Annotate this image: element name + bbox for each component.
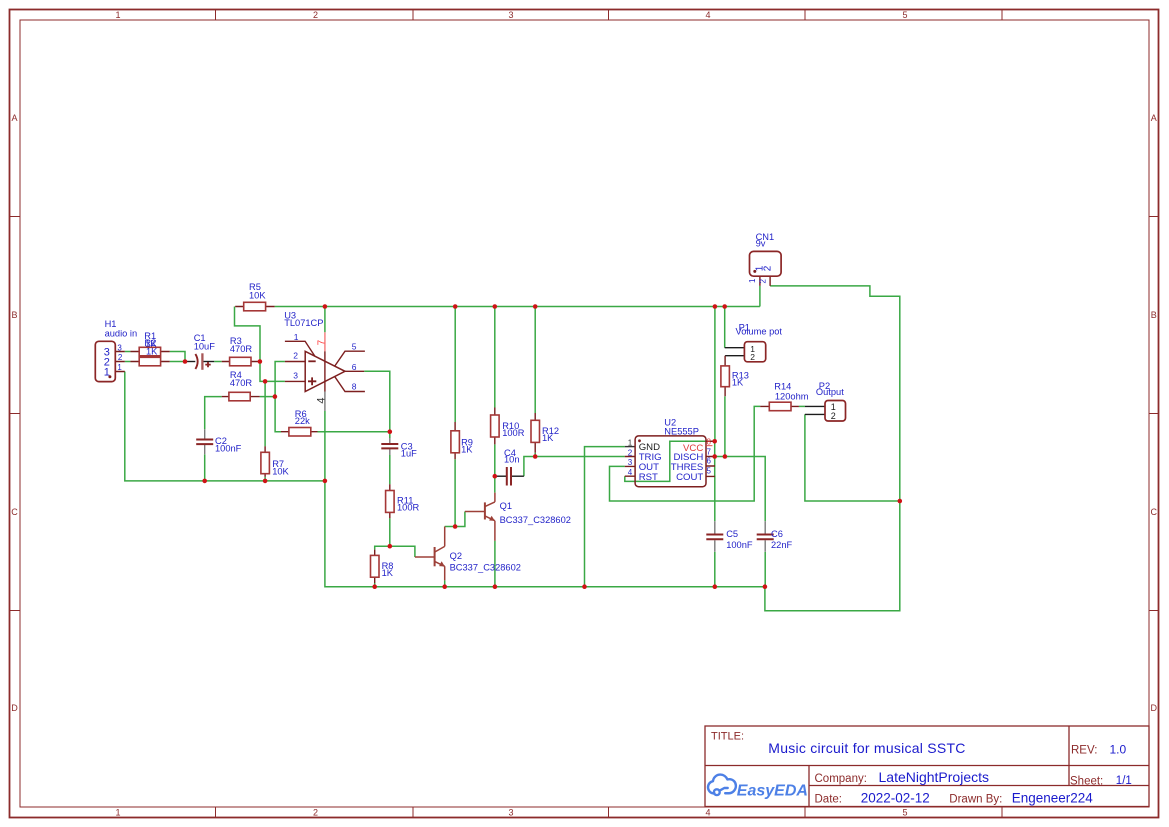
capacitor C5 plates xyxy=(706,535,723,540)
resistor R8 body xyxy=(371,555,380,577)
svg-text:BC337_C328602: BC337_C328602 xyxy=(500,515,571,525)
junction rail R10 xyxy=(493,304,498,309)
connector P2 body xyxy=(825,401,846,422)
svg-text:3: 3 xyxy=(117,343,122,352)
svg-text:2: 2 xyxy=(831,411,836,421)
wire R7 bottom to ground rail xyxy=(264,477,266,481)
resistor R11 body xyxy=(386,491,395,513)
wire R11 node right to Q2 base xyxy=(390,546,415,557)
svg-text:2: 2 xyxy=(313,10,318,20)
op-amp pin numbers xyxy=(293,332,357,391)
frame row ticks right xyxy=(1149,217,1159,611)
wire P1 pin2 black segment xyxy=(725,355,744,357)
op-amp pin 7 salmon segment xyxy=(324,332,326,351)
wire C6 bottom to bottom rail xyxy=(764,552,766,587)
capacitor C2 gray stubs xyxy=(204,429,206,454)
junction rail R9 xyxy=(453,304,458,309)
wire U2 pin3 OUT loop up to R14 xyxy=(610,406,761,501)
svg-text:10K: 10K xyxy=(249,290,266,300)
svg-text:2: 2 xyxy=(293,351,298,361)
connector H1 pin1 marker dot xyxy=(108,375,111,378)
svg-text:Music circuit for musical SSTC: Music circuit for musical SSTC xyxy=(768,740,965,756)
resistor R4 body xyxy=(229,392,250,401)
pin 1 stub U2 GND xyxy=(625,446,635,448)
resistor R1 stubs xyxy=(130,351,169,353)
svg-text:B: B xyxy=(1151,310,1157,320)
svg-text:6: 6 xyxy=(707,456,712,465)
svg-text:3: 3 xyxy=(508,10,513,20)
svg-text:100nF: 100nF xyxy=(215,443,242,453)
svg-text:1: 1 xyxy=(748,278,757,283)
capacitor C6 plates xyxy=(757,535,774,540)
op-amp pin 1 xyxy=(285,341,315,356)
svg-text:4: 4 xyxy=(628,468,633,477)
resistor R7 stubs xyxy=(264,446,266,477)
svg-text:audio in: audio in xyxy=(105,328,138,338)
svg-text:D: D xyxy=(11,703,18,713)
junction ground rail R7 xyxy=(263,479,268,484)
EasyEDA logo cloud xyxy=(708,775,736,795)
wire C2 bottom to ground rail xyxy=(204,454,206,481)
wire pin3 node to op-amp pin3 xyxy=(265,380,285,382)
svg-text:1K: 1K xyxy=(461,445,473,455)
svg-text:2022-02-12: 2022-02-12 xyxy=(861,790,930,805)
title block divider row1 xyxy=(705,765,1149,767)
wire pin8 node to pin7 node xyxy=(714,441,716,456)
wire R8 bottom to bottom rail xyxy=(374,583,376,587)
svg-text:A: A xyxy=(11,113,17,123)
svg-text:1K: 1K xyxy=(382,568,394,578)
svg-text:RST: RST xyxy=(639,472,658,483)
junction U2 pin8 xyxy=(712,439,717,444)
resistor R1 body xyxy=(139,347,160,356)
svg-text:1/1: 1/1 xyxy=(1116,775,1132,787)
resistor R9 body xyxy=(451,431,460,453)
wire R11 node left to R8 top xyxy=(375,546,390,549)
resistor R5 body xyxy=(244,302,266,311)
resistor R5 stubs xyxy=(235,306,274,308)
svg-text:1.0: 1.0 xyxy=(1110,743,1127,757)
U2 pin numbers left xyxy=(628,439,633,478)
wire op-amp pin2 left elbow down to R6 xyxy=(275,362,285,432)
junction bottom rail U2 GND xyxy=(582,584,587,589)
connector P1 body xyxy=(744,342,765,362)
junction R11 R8 Q2 node xyxy=(388,544,393,549)
svg-text:1: 1 xyxy=(115,808,120,818)
svg-text:2: 2 xyxy=(628,448,633,457)
svg-text:Sheet:: Sheet: xyxy=(1070,775,1103,787)
svg-text:C6: C6 xyxy=(771,529,783,539)
svg-text:3: 3 xyxy=(293,371,298,381)
resistor R3 body xyxy=(230,357,251,366)
title block divider rev column xyxy=(1068,726,1070,786)
svg-text:C5: C5 xyxy=(726,529,738,539)
resistor R10 stubs xyxy=(494,408,496,445)
resistor R2 stubs xyxy=(130,361,169,363)
wire R1 right elbow to C1 node xyxy=(170,352,185,362)
junction R4 pin2 node xyxy=(273,394,278,399)
svg-text:LateNightProjects: LateNightProjects xyxy=(879,769,990,785)
connector CN1 pin stubs xyxy=(760,276,770,286)
P2 pin names xyxy=(831,402,836,421)
wire P1 pin1 black segment xyxy=(725,347,745,349)
svg-text:1: 1 xyxy=(104,367,110,379)
svg-text:5: 5 xyxy=(707,466,712,475)
junction P2 right loop xyxy=(898,499,903,504)
capacitor C6 gray stubs xyxy=(764,521,766,552)
transistor Q2 xyxy=(415,527,445,581)
svg-text:2: 2 xyxy=(118,353,123,362)
svg-text:1K: 1K xyxy=(146,347,158,357)
op-amp minus sign xyxy=(308,360,315,362)
wire P2 pin2 black segment xyxy=(805,413,825,415)
connector H1 body xyxy=(95,341,115,381)
U2 pin numbers right xyxy=(707,437,712,475)
wire bottom rail loop to CN1 pin2 xyxy=(765,286,900,611)
junction bottom rail Q2 emitter xyxy=(442,584,447,589)
resistor R3 stubs xyxy=(222,361,260,363)
wire Q1 emitter to bottom rail xyxy=(494,541,496,587)
wire op-amp pin6 elbow down to C3 node and C3 top xyxy=(364,371,390,438)
IC U2 NE555P body xyxy=(635,436,706,487)
resistor R12 body xyxy=(531,420,540,442)
wire top power rail xyxy=(275,306,760,308)
wire R10 bottom to C4 node xyxy=(494,444,496,476)
resistor R14 body xyxy=(769,402,791,411)
svg-text:22k: 22k xyxy=(295,416,310,426)
frame row ticks left xyxy=(10,217,20,611)
svg-text:TL071CP: TL071CP xyxy=(284,318,323,328)
wire collector node stair to Q1 base xyxy=(455,512,465,527)
wire rail to R12 xyxy=(534,307,536,414)
svg-text:4: 4 xyxy=(705,10,710,20)
resistor R9 stubs xyxy=(454,422,456,459)
op-amp pin 5 xyxy=(335,351,365,366)
svg-text:2: 2 xyxy=(750,352,755,362)
wire C4 node down to Q1 collector xyxy=(494,476,496,492)
junction R3 right node xyxy=(258,359,263,364)
wire C3 bottom to R11 top xyxy=(389,455,391,484)
U2 pin stubs left xyxy=(625,457,635,477)
junction ground rail C2 xyxy=(202,479,207,484)
resistor R6 body xyxy=(289,428,311,437)
op-amp pin 7 vertical dark segment xyxy=(324,351,326,391)
wire R13 bottom to pin7 node xyxy=(724,396,726,456)
capacitor C1 polarized xyxy=(195,353,210,370)
wire R9 bottom to collector node xyxy=(454,459,456,526)
H1 pin names xyxy=(104,347,110,379)
resistor R10 body xyxy=(491,415,500,437)
svg-text:Q1: Q1 xyxy=(500,501,512,511)
wire Q2 emitter to bottom rail xyxy=(444,580,446,586)
svg-text:10uF: 10uF xyxy=(194,341,216,351)
junction R12 TRIG node xyxy=(533,454,538,459)
svg-text:2: 2 xyxy=(313,808,318,818)
resistor R11 stubs xyxy=(389,484,391,518)
wire R4 left to C2 top xyxy=(205,397,222,430)
junction bottom rail C6 xyxy=(763,584,768,589)
svg-text:Drawn By:: Drawn By: xyxy=(949,794,1002,806)
svg-text:1uF: 1uF xyxy=(401,449,417,459)
svg-text:120ohm: 120ohm xyxy=(775,391,809,401)
CN1 pin numbers rotated xyxy=(748,278,767,284)
wire H1 pin1 down and ground rail left xyxy=(125,372,325,481)
svg-text:5: 5 xyxy=(352,341,357,351)
wire P2 pin1 black segment xyxy=(805,405,825,407)
pin 4 gray segment op-amp xyxy=(324,392,326,412)
svg-text:470R: 470R xyxy=(230,378,253,388)
title block outline xyxy=(705,726,1149,807)
resistor R13 stubs xyxy=(724,356,726,397)
svg-text:Output: Output xyxy=(816,387,844,397)
wire rail to R10 xyxy=(494,307,496,408)
svg-text:100R: 100R xyxy=(502,428,525,438)
svg-text:3: 3 xyxy=(628,458,633,467)
wire C4 right elbow to U2 pin2 TRIG xyxy=(524,457,625,477)
wire rail to op-amp pin7 xyxy=(324,307,326,333)
svg-text:1: 1 xyxy=(294,332,299,342)
resistor R14 stubs xyxy=(760,405,799,407)
wire C5 bottom to bottom rail xyxy=(714,552,716,587)
svg-text:10K: 10K xyxy=(272,467,289,477)
wire collector node to Q2 collector xyxy=(445,526,455,528)
wire R11 bottom to node xyxy=(389,518,391,546)
svg-text:Company:: Company: xyxy=(815,773,867,785)
svg-text:9v: 9v xyxy=(756,238,766,248)
op-amp pin 2 stub xyxy=(285,361,305,363)
capacitor C3 gray stubs xyxy=(389,438,391,455)
op-amp plus sign xyxy=(308,377,316,385)
wire pin7 node right elbow down to C6 xyxy=(715,457,766,522)
resistor R7 body xyxy=(261,452,270,473)
svg-text:3: 3 xyxy=(508,808,513,818)
junction C1 left node xyxy=(183,359,188,364)
wire R4 right to pin2 node xyxy=(260,396,275,398)
svg-text:REV:: REV: xyxy=(1071,745,1097,757)
svg-text:2: 2 xyxy=(758,279,767,284)
connector CN1 body xyxy=(750,251,782,276)
op-amp pin 6 stub xyxy=(345,370,364,372)
resistor R12 stubs xyxy=(534,413,536,453)
svg-text:100R: 100R xyxy=(397,503,420,513)
svg-text:COUT: COUT xyxy=(676,472,703,483)
svg-text:2: 2 xyxy=(763,265,774,271)
wire pin3 node down to R7 xyxy=(264,381,266,446)
junction pin6 R6 C3 node xyxy=(388,429,393,434)
resistor R2 body xyxy=(139,357,160,366)
capacitor C5 gray stubs xyxy=(714,521,716,552)
wire R14 right short segment xyxy=(799,405,805,407)
svg-text:1: 1 xyxy=(117,363,122,372)
wire C4 right black segment xyxy=(512,475,524,477)
wire U2 pin1 GND elbow to bottom rail xyxy=(585,447,625,587)
junction R10 C4 Q1 node xyxy=(493,474,498,479)
svg-text:TITLE:: TITLE: xyxy=(711,730,744,742)
svg-text:8: 8 xyxy=(352,381,357,391)
wire C1 to R3 xyxy=(214,361,222,363)
wire C1 right black segment xyxy=(203,361,214,363)
junction bottom rail Q1 emitter xyxy=(493,584,498,589)
junction rail R12 xyxy=(533,304,538,309)
wire rail to R9 xyxy=(454,307,456,423)
svg-text:B: B xyxy=(11,310,17,320)
svg-text:5: 5 xyxy=(902,10,907,20)
wire op-amp pin4 down and bottom ground rail xyxy=(325,411,765,587)
resistor R8 stubs xyxy=(374,550,376,583)
svg-text:1K: 1K xyxy=(542,433,554,443)
resistor R4 stubs xyxy=(222,396,260,398)
svg-text:22nF: 22nF xyxy=(771,540,793,550)
svg-text:10n: 10n xyxy=(504,455,520,465)
svg-text:C: C xyxy=(11,507,18,517)
connector CN1 pin1 marker dot xyxy=(753,270,756,273)
H1 pin numbers xyxy=(117,343,123,372)
wire R6 right to C3 node xyxy=(318,431,390,433)
wire C1 left black segment xyxy=(185,361,195,363)
U2 pin stubs right xyxy=(706,441,715,476)
svg-text:4: 4 xyxy=(316,398,328,404)
svg-text:A: A xyxy=(1151,113,1157,123)
junction U2 pin7 b R13 xyxy=(723,454,728,459)
svg-text:4: 4 xyxy=(705,808,710,818)
svg-text:470R: 470R xyxy=(230,344,253,354)
wire rail up to CN1 pin1 xyxy=(759,286,761,307)
junction bottom rail R8 xyxy=(372,584,377,589)
capacitor C3 plates xyxy=(381,444,398,448)
wire pin7 node down past pin5 to C5 xyxy=(714,457,716,522)
capacitor C4 plates xyxy=(507,467,511,486)
title block divider row2 xyxy=(809,785,1149,787)
svg-text:Volume pot: Volume pot xyxy=(736,326,783,336)
junction pin3 node xyxy=(263,379,268,384)
transistor Q1 xyxy=(465,493,495,541)
wire R2 right to C1 node xyxy=(170,361,185,363)
frame column ticks top xyxy=(216,10,1003,20)
svg-text:R14: R14 xyxy=(774,382,791,392)
junction rail op-amp pin7 xyxy=(323,304,328,309)
wire H1 pin3 to R1 xyxy=(125,351,131,353)
junction U2 pin7 a xyxy=(712,454,717,459)
svg-text:6: 6 xyxy=(352,362,357,372)
connector H1 pin stubs xyxy=(115,352,125,372)
svg-text:Q2: Q2 xyxy=(450,551,462,561)
junction rail P1 column xyxy=(722,304,727,309)
svg-text:C: C xyxy=(1151,507,1158,517)
junction R9 Q2 Q1 node xyxy=(453,524,458,529)
svg-text:1K: 1K xyxy=(732,378,744,388)
resistor R6 stubs xyxy=(281,431,318,433)
svg-text:Engeneer224: Engeneer224 xyxy=(1012,791,1094,806)
U2 pin names xyxy=(639,442,704,483)
P1 pin names xyxy=(750,344,755,362)
svg-text:8: 8 xyxy=(707,437,712,446)
U2 pin 8 underline xyxy=(706,445,713,447)
wire H1 pin2 to R2 xyxy=(125,361,131,363)
wire R5 left elbow down to R3 node and pin3 node xyxy=(235,307,266,382)
wire rail to U2 pin8 xyxy=(714,307,716,442)
op-amp U3 xyxy=(285,341,365,391)
wire rail to P1 pin1 xyxy=(724,307,726,348)
frame column ticks bottom xyxy=(216,807,1003,817)
svg-text:BC337_C328602: BC337_C328602 xyxy=(450,563,521,573)
svg-text:Date:: Date: xyxy=(815,793,843,805)
wire R12 bottom to TRIG node xyxy=(534,453,536,457)
svg-text:1: 1 xyxy=(628,439,633,448)
resistor R13 body xyxy=(721,366,730,387)
wire U2 pin4 RST loop to pin8 VCC xyxy=(625,441,715,481)
U2 pin 1 marker dot xyxy=(638,439,641,442)
svg-text:NE555P: NE555P xyxy=(664,426,699,436)
svg-text:EasyEDA: EasyEDA xyxy=(737,782,808,799)
svg-text:100nF: 100nF xyxy=(726,540,753,550)
junction bottom rail C5 xyxy=(713,584,718,589)
wire P2 pin2 elbow to right loop xyxy=(805,414,900,501)
svg-text:1: 1 xyxy=(115,10,120,20)
svg-text:7: 7 xyxy=(317,339,328,345)
junction rail U2 pin8 column xyxy=(713,304,718,309)
op-amp pin 8 xyxy=(335,377,365,392)
title block divider logo cell xyxy=(808,766,810,807)
svg-text:D: D xyxy=(1151,703,1158,713)
svg-text:7: 7 xyxy=(707,448,712,457)
svg-text:5: 5 xyxy=(902,808,907,818)
junction ground rail pin4 column xyxy=(323,479,328,484)
op-amp pin 3 stub xyxy=(285,380,305,382)
capacitor C2 plates xyxy=(196,440,213,445)
wire C4 left black segment xyxy=(495,475,506,477)
